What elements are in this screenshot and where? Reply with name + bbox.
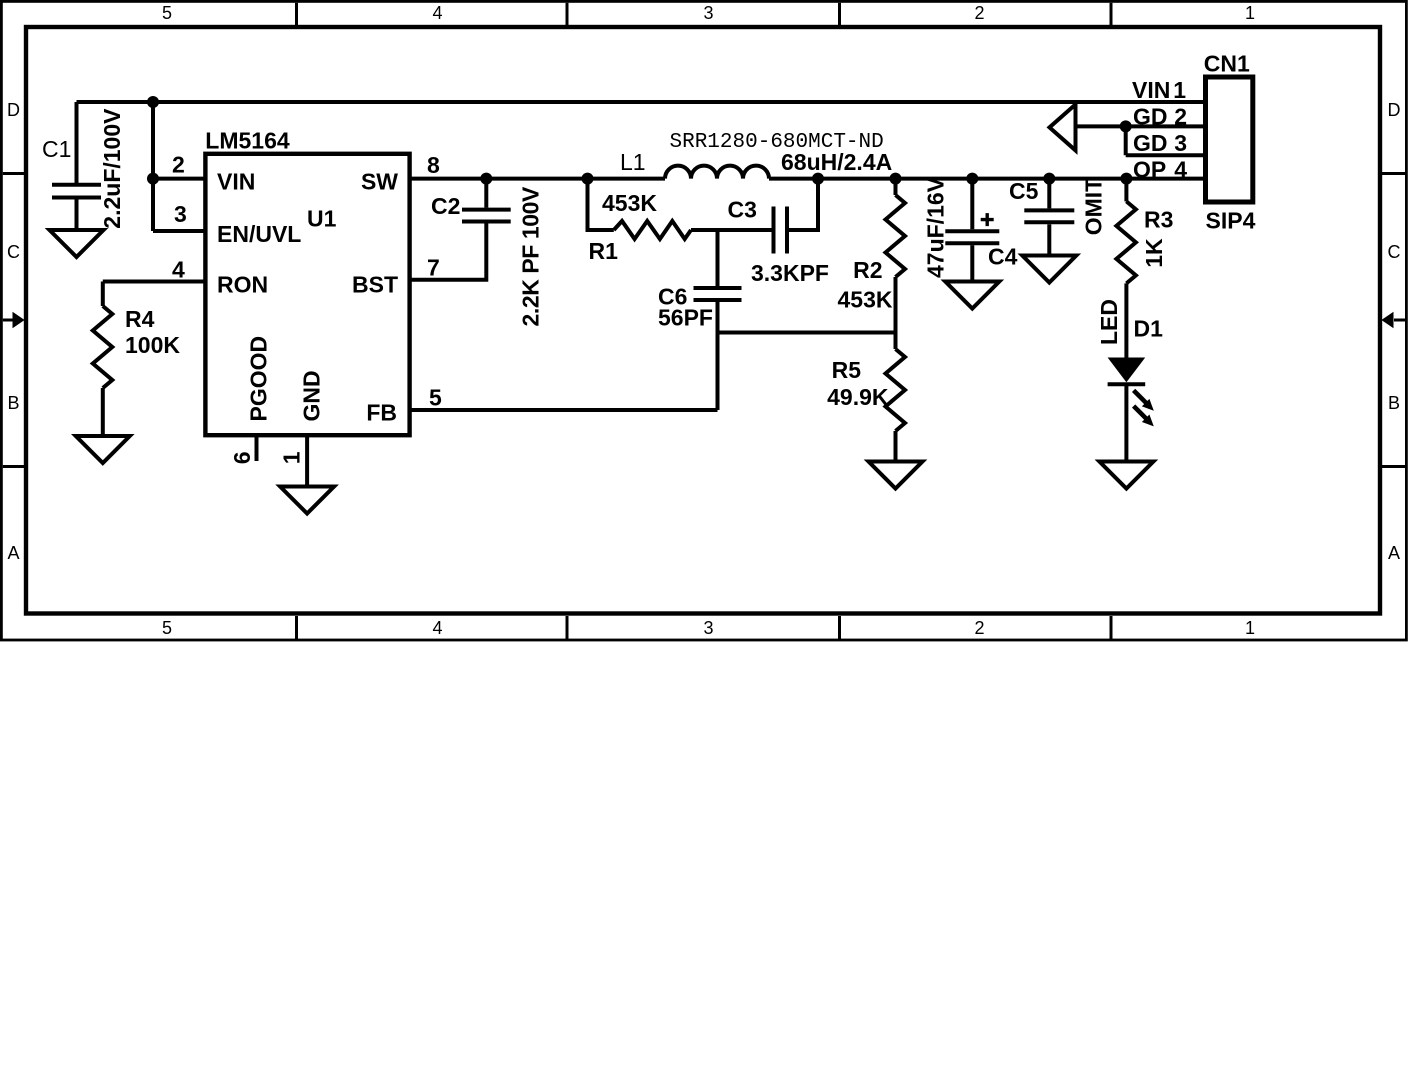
wire pin8 SW [410, 177, 665, 181]
svg-text:GD: GD [1133, 130, 1168, 156]
junction R1 / L1 left [582, 173, 594, 185]
svg-text:8: 8 [427, 152, 440, 178]
svg-text:GND: GND [299, 370, 325, 421]
inductor L1 [665, 166, 769, 179]
svg-text:SW: SW [361, 169, 398, 195]
ground R4 [76, 436, 130, 463]
input arrow symbol [1050, 104, 1076, 150]
svg-text:OP: OP [1133, 156, 1166, 182]
capacitor C4 plus sign [981, 213, 994, 226]
wire GD2 from arrow [1076, 124, 1204, 128]
column tick bottom 5/4 [295, 616, 298, 639]
junction C5 [1043, 173, 1055, 185]
svg-text:B: B [7, 393, 19, 413]
svg-text:2: 2 [974, 618, 984, 638]
resistor R1 [614, 221, 691, 239]
resistor R2 [886, 195, 906, 277]
wire R2 to R5 [894, 277, 898, 349]
svg-text:3: 3 [703, 3, 713, 23]
svg-text:4: 4 [1174, 156, 1187, 182]
svg-text:3: 3 [174, 201, 187, 227]
junction C4 [966, 173, 978, 185]
svg-text:56PF: 56PF [658, 305, 713, 331]
svg-text:7: 7 [427, 255, 440, 281]
svg-text:B: B [1388, 393, 1400, 413]
wire R3 to LED [1124, 283, 1128, 357]
svg-text:R4: R4 [125, 306, 155, 332]
column tick bottom 3/2 [838, 616, 841, 639]
junction GD2 [1120, 120, 1132, 132]
column tick bottom 4/3 [566, 616, 569, 639]
capacitor C1 plates [52, 185, 101, 198]
svg-text:C1: C1 [42, 136, 71, 162]
svg-text:2.2uF/100V: 2.2uF/100V [99, 108, 125, 229]
svg-text:1: 1 [1245, 618, 1255, 638]
capacitor C3 plates [774, 207, 788, 254]
svg-text:1: 1 [1245, 3, 1255, 23]
wire C2 bottom lead to BST [410, 223, 487, 279]
svg-text:C: C [1388, 242, 1401, 262]
column tick top 3/2 [838, 3, 841, 25]
row tick left D/C [3, 172, 24, 175]
svg-text:4: 4 [432, 618, 442, 638]
svg-text:VIN: VIN [217, 169, 255, 195]
border frame outer [1, 1, 1406, 640]
diode D1 triangle [1108, 358, 1146, 383]
resistor R4 [93, 306, 113, 388]
IC U1 box [205, 154, 409, 435]
wire C1 top lead [75, 102, 79, 183]
wire feedback tap [718, 331, 896, 335]
wire C1 bottom lead [75, 199, 79, 230]
diode D1 cathode bar [1108, 382, 1146, 386]
wire C6 top lead [716, 230, 720, 286]
svg-text:R2: R2 [853, 257, 882, 283]
resistor R3 [1116, 201, 1136, 283]
wire pin6 stub [255, 434, 259, 461]
svg-text:2: 2 [974, 3, 984, 23]
svg-text:D: D [7, 100, 20, 120]
connector CN1 box [1206, 77, 1253, 202]
svg-text:6: 6 [229, 452, 255, 465]
svg-text:5: 5 [162, 3, 172, 23]
svg-text:C: C [7, 242, 20, 262]
svg-text:BST: BST [352, 272, 398, 298]
svg-text:4: 4 [172, 257, 185, 283]
svg-text:LED: LED [1096, 299, 1122, 345]
svg-text:RON: RON [217, 272, 268, 298]
column tick bottom 2/1 [1110, 616, 1113, 639]
wire GD3 drop [1124, 126, 1128, 155]
svg-text:453K: 453K [838, 287, 893, 313]
svg-text:1: 1 [279, 451, 305, 464]
svg-text:47uF/16V: 47uF/16V [923, 176, 949, 278]
wire pin5 FB [410, 408, 718, 412]
wire R4 bottom lead [101, 388, 105, 436]
svg-text:100K: 100K [125, 332, 180, 358]
wire R1 to C3 [691, 228, 772, 232]
svg-text:SIP4: SIP4 [1206, 208, 1256, 234]
wire output rail [769, 177, 1203, 181]
ground C5 [1022, 256, 1076, 283]
junction C3 / L1 right [812, 173, 824, 185]
svg-text:1: 1 [1173, 77, 1186, 103]
junction R2 top [890, 173, 902, 185]
wire pin3 EN/UVL [153, 229, 205, 233]
svg-text:3: 3 [703, 618, 713, 638]
resistor R5 [886, 349, 906, 431]
svg-text:R1: R1 [589, 238, 619, 264]
svg-text:A: A [1388, 543, 1400, 563]
wire VIN vertical drop [151, 102, 155, 231]
junction VIN pin2 [147, 173, 159, 185]
svg-text:U1: U1 [307, 206, 337, 232]
junction R3 [1120, 173, 1132, 185]
wire C5 top lead [1047, 179, 1051, 209]
row tick right D/C [1382, 172, 1405, 175]
capacitor C6 plates [694, 288, 742, 300]
svg-text:5: 5 [429, 385, 442, 411]
ground U1 pin1 [280, 487, 334, 514]
svg-text:2: 2 [172, 152, 185, 178]
svg-text:C2: C2 [431, 193, 460, 219]
D1 light arrow 2 [1134, 406, 1147, 419]
wire R2 top lead [894, 179, 898, 195]
wire C3 right lead up to rail [789, 179, 818, 230]
wire GD3 [1126, 153, 1203, 157]
svg-text:D1: D1 [1134, 316, 1164, 342]
capacitor C5 plates [1024, 210, 1074, 222]
ground C1 [50, 230, 104, 257]
wire D1 to ground [1124, 384, 1128, 461]
wire pin2 VIN [153, 177, 205, 181]
svg-text:C3: C3 [728, 197, 757, 223]
svg-text:1K: 1K [1141, 238, 1167, 268]
column tick top 4/3 [566, 3, 569, 25]
wire R3 top lead [1124, 179, 1128, 202]
svg-text:453K: 453K [602, 190, 657, 216]
wire C4 bottom lead [970, 245, 974, 281]
wire VIN top rail [77, 100, 1204, 104]
left edge center arrow [13, 312, 25, 328]
wire R1 left lead from SW node [588, 179, 614, 230]
ground C4 [945, 282, 999, 309]
D1 light arrow 1 [1134, 390, 1147, 403]
svg-text:C4: C4 [988, 244, 1018, 270]
svg-text:3: 3 [1174, 130, 1187, 156]
svg-text:3.3KPF: 3.3KPF [751, 260, 829, 286]
svg-text:A: A [7, 543, 19, 563]
svg-text:2.2K PF 100V: 2.2K PF 100V [518, 186, 544, 327]
capacitor C2 plates [462, 210, 511, 222]
svg-text:OMIT: OMIT [1081, 178, 1107, 236]
svg-text:C5: C5 [1009, 178, 1039, 204]
wire pin1 GND lead [305, 434, 309, 487]
svg-text:5: 5 [162, 618, 172, 638]
svg-text:LM5164: LM5164 [205, 127, 290, 153]
ground R5 [869, 462, 923, 489]
capacitor C4 plates [945, 231, 999, 243]
row tick left B/A [3, 465, 24, 468]
wire R4 top lead [101, 282, 105, 307]
svg-text:2: 2 [1174, 104, 1187, 130]
svg-text:D: D [1388, 100, 1401, 120]
wire pin4 RON [103, 280, 205, 284]
junction top rail / VIN drop [147, 96, 159, 108]
svg-text:49.9K: 49.9K [827, 384, 889, 410]
wire C5 bottom lead [1047, 224, 1051, 255]
border frame inner [26, 27, 1380, 614]
wire C6 bottom lead [716, 302, 720, 410]
junction C2 / SW [480, 173, 492, 185]
svg-text:EN/UVL: EN/UVL [217, 221, 301, 247]
wire R5 bottom lead [894, 431, 898, 462]
svg-text:PGOOD: PGOOD [246, 336, 272, 422]
left edge center arrow tail [3, 319, 13, 322]
column tick top 2/1 [1110, 3, 1113, 25]
svg-text:R3: R3 [1144, 206, 1173, 232]
svg-text:4: 4 [432, 3, 442, 23]
svg-text:L1: L1 [620, 149, 646, 175]
svg-text:68uH/2.4A: 68uH/2.4A [781, 149, 892, 175]
wire C2 top lead [484, 179, 488, 208]
right edge center arrow [1381, 312, 1393, 328]
row tick right B/A [1382, 465, 1405, 468]
svg-text:CN1: CN1 [1204, 51, 1250, 77]
right edge center arrow tail [1394, 319, 1405, 322]
wire C4 top lead [970, 179, 974, 230]
svg-text:FB: FB [366, 400, 397, 426]
column tick top 5/4 [295, 3, 298, 25]
svg-text:R5: R5 [832, 357, 862, 383]
svg-text:VIN: VIN [1132, 77, 1170, 103]
ground D1 [1099, 462, 1153, 489]
svg-text:GD: GD [1133, 104, 1168, 130]
